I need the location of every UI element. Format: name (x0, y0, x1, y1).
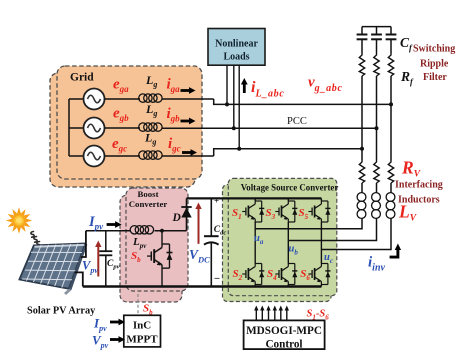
arrow V_pv mppt (110, 336, 125, 343)
arrow i_L_abc (241, 78, 248, 93)
svg-text:Interfacing: Interfacing (395, 180, 443, 191)
gate arrows S1-S6 (256, 310, 287, 320)
arrow V_pv (97, 246, 99, 277)
capacitor C_pv (105, 231, 107, 251)
svg-text:Loads: Loads (223, 52, 249, 63)
inductor L_V branch a (357, 193, 366, 219)
node NL-a (225, 102, 229, 106)
wire row b (105, 127, 141, 129)
wire DC bottom rail (83, 285, 322, 287)
transistor S2 (242, 264, 264, 285)
voltage source converter block 3D shadow (223, 185, 332, 302)
wire nonlinear load b (233, 65, 235, 128)
nonlinear loads box (208, 29, 265, 66)
svg-text:Nonlinear: Nonlinear (215, 39, 258, 50)
wire phase c jog (214, 149, 362, 156)
arrow i_gc (182, 149, 197, 156)
transistor S3 (275, 201, 297, 222)
svg-text:PCC: PCC (287, 116, 307, 127)
node switch (160, 229, 164, 233)
svg-text:–: – (214, 273, 221, 284)
wire RV-LV c (390, 183, 392, 193)
arrow I_pv mppt (110, 319, 125, 326)
wire leg c mid (320, 222, 322, 264)
wire filter drop b (376, 76, 378, 160)
solar PV array panel (19, 243, 87, 295)
node NL-b (232, 126, 236, 130)
arrow i_ga (181, 87, 196, 94)
wire PV to boost (86, 230, 131, 232)
boost converter block (126, 188, 188, 291)
arrow i_gb (181, 118, 196, 125)
resistor R_f branch c (388, 53, 393, 76)
arrow I_pv top (107, 221, 122, 228)
wire u_b to branch (288, 219, 376, 241)
arrow V_DC (198, 208, 200, 244)
sun rays squiggles (31, 232, 40, 248)
grid block (57, 66, 202, 179)
resistor R_V branch b (374, 160, 379, 183)
wire nonlinear load a (226, 65, 228, 104)
transistor S4 (275, 264, 297, 285)
inductor L_g row a (139, 94, 162, 102)
inductor L_V branch c (386, 193, 395, 219)
wire filter top bus (362, 26, 391, 28)
wire leg b mid (287, 222, 289, 264)
diode D boost (186, 198, 188, 230)
svg-text:MDSOGI-MPC: MDSOGI-MPC (246, 325, 322, 337)
svg-text:Boost: Boost (137, 189, 158, 199)
inductor L_pv (130, 226, 153, 234)
wire grid left bus (68, 99, 70, 156)
AC source e_gb (84, 118, 105, 139)
wire leg a mid (254, 222, 256, 264)
transistor S5 (308, 201, 330, 222)
wire u_a to branch (255, 219, 362, 229)
wire S6 to rail (320, 285, 322, 287)
capacitor C_f branch b (371, 27, 382, 53)
resistor R_f branch a (359, 53, 364, 76)
svg-text:D: D (172, 212, 182, 224)
node NL-c (237, 147, 241, 151)
transistor S5 leg stub (320, 198, 322, 201)
svg-text:+: + (214, 196, 219, 206)
grid block 3D shadow (50, 73, 195, 187)
svg-text:Converter: Converter (129, 199, 168, 209)
svg-text:Grid: Grid (70, 72, 94, 84)
node PCC-c (360, 147, 364, 151)
wire RV-LV b (376, 183, 378, 193)
svg-text:InC: InC (133, 320, 151, 332)
AC source e_gc (84, 146, 105, 167)
MDSOGI-MPC control box (244, 320, 325, 349)
capacitor C_dc (210, 198, 212, 235)
svg-text:Control: Control (265, 339, 302, 351)
voltage source converter block (228, 178, 336, 295)
resistor R_f branch b (374, 53, 379, 76)
node PCC-b (375, 126, 379, 130)
wire nonlinear load c (238, 65, 240, 149)
svg-text:Solar PV Array: Solar PV Array (27, 306, 96, 317)
AC source e_ga (84, 89, 105, 110)
wire row c (105, 155, 141, 157)
wire RV-LV a (361, 183, 363, 193)
boost converter block 3D shadow (120, 195, 182, 302)
wire S2 to rail (254, 285, 256, 287)
transistor S6 (308, 264, 330, 285)
wire PV top (81, 231, 86, 257)
wire filter drop a (361, 76, 363, 160)
wire phase a jog (214, 99, 391, 104)
transistor S1 (242, 201, 264, 222)
wire u_c to branch (321, 219, 391, 250)
wire PV bottom (75, 272, 83, 286)
transistor S3 leg stub (287, 198, 289, 201)
svg-text:Voltage Source Converter: Voltage Source Converter (241, 183, 339, 193)
transistor S_b boost (161, 231, 163, 244)
resistor R_V branch c (388, 160, 393, 183)
transistor S1 leg stub (254, 198, 256, 201)
inductor L_g row b (139, 123, 162, 131)
wire switch node (155, 230, 187, 232)
wire S_b dashed to MPPT (137, 294, 139, 315)
wire S4 to rail (287, 285, 289, 287)
svg-text:MPPT: MPPT (126, 334, 158, 346)
InC MPPT box (124, 315, 161, 347)
node PCC-a (389, 102, 393, 106)
capacitor C_f branch c (386, 27, 397, 53)
wire DC top rail (187, 197, 322, 199)
svg-text:Switching: Switching (413, 44, 455, 55)
sun (6, 207, 32, 233)
inductor L_g row c (139, 151, 162, 159)
arrow i_inv (390, 249, 398, 257)
capacitor C_f branch a (357, 27, 368, 53)
inductor L_V branch b (372, 193, 381, 219)
svg-text:Ripple: Ripple (420, 59, 449, 70)
resistor R_V branch a (359, 160, 364, 183)
wire row a (105, 98, 141, 100)
wire filter drop c (390, 76, 392, 160)
svg-text:Filter: Filter (423, 72, 447, 83)
